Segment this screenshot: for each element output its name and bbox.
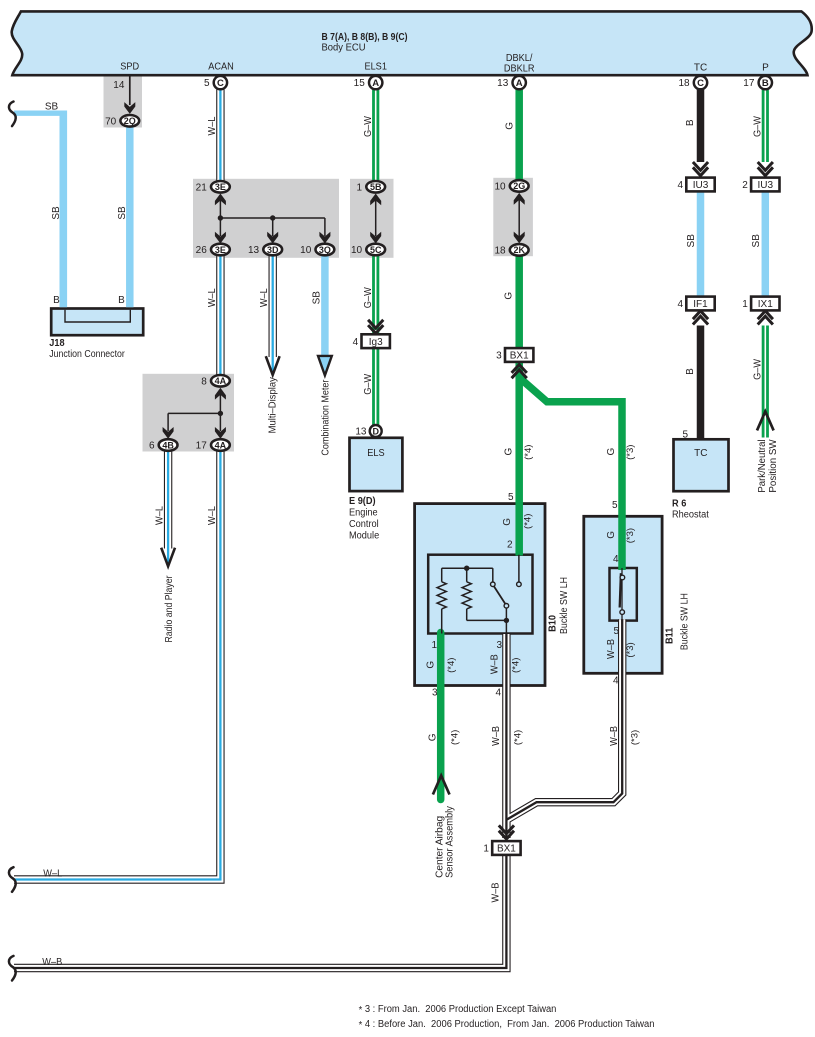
svg-text:5C: 5C: [370, 245, 382, 255]
svg-text:E 9(D): E 9(D): [349, 496, 376, 507]
svg-text:5: 5: [204, 78, 210, 89]
arrows into 26(3E),13(3D),10(3Q): [215, 232, 226, 244]
B10 Buckle SW LH box: [415, 504, 545, 686]
svg-text:13: 13: [248, 245, 260, 256]
arrow to Radio and Player: [161, 548, 175, 567]
svg-text:3Q: 3Q: [319, 245, 331, 255]
wire B IF1 to R6 TC: [697, 326, 705, 440]
double chevron into 2 IU3: [758, 167, 773, 175]
svg-text:3: 3: [496, 351, 502, 362]
wire B C to IU3: [697, 90, 705, 162]
wire SB from left break to J18: [14, 110, 65, 115]
svg-text:5: 5: [682, 429, 688, 440]
svg-text:2G: 2G: [513, 181, 525, 191]
svg-text:SB: SB: [686, 234, 697, 248]
resistor in B10 (mid): [466, 568, 468, 582]
svg-text:4: 4: [613, 675, 619, 686]
svg-text:C: C: [697, 78, 704, 89]
svg-text:3D: 3D: [267, 245, 279, 255]
connector 4A bottom: [211, 439, 230, 451]
wire G-W Ig3 to ECM D: [372, 349, 379, 425]
break symbol W-L wire: [9, 867, 16, 892]
svg-text:G–W: G–W: [363, 115, 374, 137]
wire G BX1 to B10 pin5: [515, 361, 523, 556]
connector box BX1 upper: [505, 348, 533, 362]
svg-text:BX1: BX1: [497, 844, 516, 855]
svg-text:G: G: [503, 447, 514, 455]
svg-text:21: 21: [196, 182, 208, 193]
svg-text:W–L: W–L: [259, 288, 270, 307]
connector 3D: [263, 244, 282, 256]
junction block shade 3E/3D/3Q: [193, 179, 339, 258]
svg-text:C: C: [217, 78, 224, 89]
junction block 3E/3D/3Q internal wiring: [220, 200, 325, 236]
pin circle A (ELS1): [369, 76, 382, 89]
svg-text:5: 5: [612, 500, 618, 511]
wire SB IU3 to IX1: [762, 191, 770, 296]
svg-text:3: 3: [432, 688, 438, 699]
arrow into 2Q: [124, 102, 135, 114]
arrow from Park/Neutral Position SW: [757, 412, 774, 431]
Body ECU banner: [12, 11, 812, 75]
svg-text:* 4 : Before Jan. 2006 Produc: * 4 : Before Jan. 2006 Production, From …: [359, 1019, 655, 1031]
svg-text:5: 5: [613, 626, 619, 637]
svg-text:Junction Connector: Junction Connector: [49, 349, 125, 360]
svg-text:P: P: [762, 62, 769, 73]
svg-text:B10: B10: [548, 615, 559, 632]
R6 Rheostat box: [674, 439, 729, 491]
svg-text:G–W: G–W: [363, 373, 374, 395]
svg-text:(*3): (*3): [625, 642, 636, 657]
svg-text:3E: 3E: [215, 245, 226, 255]
wire G 2K to BX1: [515, 255, 523, 349]
svg-text:(*3): (*3): [625, 528, 636, 543]
J18 junction connector box: [51, 309, 143, 336]
svg-text:W–L: W–L: [207, 116, 218, 135]
svg-text:B11: B11: [664, 627, 675, 644]
ELS / Engine Control Module box: [350, 438, 403, 491]
junction block 2G/2K internal double arrow: [518, 197, 520, 240]
wire W-B B10 pin3 to BX1: [502, 634, 510, 838]
svg-text:2: 2: [507, 539, 513, 550]
svg-text:(*4): (*4): [522, 514, 533, 529]
svg-text:4A: 4A: [215, 376, 227, 386]
svg-text:26: 26: [196, 245, 208, 256]
wire W-L 3D to Multi-Display: [269, 255, 277, 357]
arrow from Center Airbag Sensor Assembly: [433, 776, 450, 795]
junction block shade 2G/2K: [493, 178, 533, 256]
svg-text:Combination Meter: Combination Meter: [321, 379, 332, 456]
svg-text:G: G: [606, 531, 617, 539]
svg-text:10: 10: [351, 245, 363, 256]
svg-text:W–L: W–L: [43, 868, 62, 879]
junction block shade 4A/4B: [143, 374, 235, 452]
svg-text:SB: SB: [311, 291, 322, 305]
svg-text:8: 8: [201, 376, 207, 387]
wire G A to 2G: [515, 90, 523, 181]
svg-text:13: 13: [497, 78, 509, 89]
svg-text:G: G: [502, 518, 513, 526]
svg-text:2Q: 2Q: [124, 116, 136, 126]
junction block 5B/5C internal wiring: [375, 200, 377, 236]
svg-text:Module: Module: [349, 531, 380, 542]
svg-text:(*4): (*4): [523, 445, 534, 460]
B10 switch arm: [494, 586, 505, 604]
connector 3E top: [211, 181, 230, 193]
connector 3E bottom: [211, 244, 230, 256]
svg-text:W–L: W–L: [207, 506, 218, 525]
svg-text:IU3: IU3: [693, 180, 709, 191]
connector box IU3 (P): [751, 178, 779, 192]
connector 5B: [366, 181, 385, 193]
svg-text:4: 4: [613, 554, 619, 565]
svg-text:G: G: [425, 661, 436, 669]
svg-text:10: 10: [494, 182, 506, 193]
connector box IU3 (TC): [686, 178, 714, 192]
svg-text:B: B: [118, 295, 125, 306]
wire SB from 2Q to J18: [126, 127, 134, 307]
svg-text:G–W: G–W: [753, 115, 764, 137]
svg-text:15: 15: [354, 78, 366, 89]
arrow into 21(3E): [215, 194, 226, 206]
svg-text:SB: SB: [45, 102, 59, 113]
svg-text:4: 4: [353, 337, 359, 348]
svg-text:2K: 2K: [513, 245, 525, 255]
svg-text:G: G: [606, 447, 617, 455]
B11 switch arm: [620, 573, 621, 607]
arrows into 6(4B),17(4A): [163, 427, 174, 439]
svg-text:W–B: W–B: [42, 957, 62, 968]
wire W-L 4B to Radio and Player: [164, 451, 172, 549]
junction block shade 5B/5C: [350, 179, 394, 258]
svg-text:TC: TC: [694, 62, 707, 73]
svg-text:17: 17: [196, 441, 208, 452]
svg-text:G: G: [503, 292, 514, 300]
svg-text:J18: J18: [49, 338, 65, 349]
pin circle C (ACAN): [214, 76, 227, 89]
wire G-W A to 5B: [372, 90, 379, 182]
svg-text:10: 10: [300, 245, 312, 256]
svg-text:IF1: IF1: [693, 299, 708, 310]
svg-text:4B: 4B: [162, 440, 174, 450]
svg-text:B: B: [685, 368, 696, 375]
double chevron into 4 IU3: [693, 167, 708, 175]
wire G-W IX1 from Park/Neutral Position SW: [762, 326, 769, 438]
svg-text:G–W: G–W: [753, 358, 764, 380]
svg-text:Multi–Display: Multi–Display: [268, 377, 279, 433]
double chevron below 4 IF1: [693, 311, 708, 319]
svg-text:18: 18: [678, 78, 690, 89]
svg-text:IU3: IU3: [758, 180, 774, 191]
break symbol W-B wire: [9, 956, 16, 981]
svg-text:14: 14: [113, 80, 125, 91]
wire W-L C to 3E: [216, 90, 224, 182]
svg-text:Position SW: Position SW: [768, 439, 779, 493]
svg-text:D: D: [372, 426, 379, 436]
svg-text:ACAN: ACAN: [208, 62, 234, 73]
junction block shade SPD: [104, 76, 143, 128]
svg-text:Ig3: Ig3: [369, 337, 383, 348]
wire G branch to B11 pin5: [519, 378, 622, 571]
svg-text:W–B: W–B: [490, 882, 501, 902]
svg-text:2: 2: [742, 180, 748, 191]
svg-text:(*4): (*4): [511, 658, 522, 673]
svg-text:4: 4: [677, 299, 683, 310]
svg-text:A: A: [516, 78, 523, 89]
svg-text:DBKL/: DBKL/: [506, 53, 533, 64]
B10 switch circuit: [518, 555, 520, 582]
arrow to Multi-Display: [266, 356, 280, 375]
svg-text:Radio and Player: Radio and Player: [164, 575, 175, 643]
svg-text:1: 1: [357, 182, 363, 193]
connector box BX1 lower: [492, 841, 520, 855]
wire SPD pin14 lead: [129, 75, 131, 106]
connector 4B: [159, 439, 178, 451]
svg-text:G–W: G–W: [363, 287, 374, 309]
wire SB 3Q to Combination Meter: [321, 255, 329, 356]
svg-text:18: 18: [494, 246, 506, 257]
svg-text:W–L: W–L: [154, 506, 165, 525]
svg-text:IX1: IX1: [758, 299, 773, 310]
connector 2K: [510, 244, 529, 256]
wire W-L 17(4A) long run to left break: [14, 451, 220, 880]
svg-text:G: G: [504, 122, 515, 130]
svg-text:3: 3: [496, 640, 502, 651]
svg-text:ELS: ELS: [367, 448, 385, 459]
arrow into 8(4A): [215, 388, 226, 400]
break symbol SB wire: [9, 102, 16, 127]
svg-text:4: 4: [495, 688, 501, 699]
svg-text:6: 6: [149, 441, 155, 452]
connector 5C: [366, 244, 385, 256]
svg-text:SPD: SPD: [120, 62, 139, 73]
B10 inner switch box: [428, 555, 532, 634]
svg-text:TC: TC: [694, 448, 707, 459]
pin circle D (ECM): [370, 425, 382, 437]
svg-text:B: B: [685, 119, 696, 126]
wire G-W B to IU3: [762, 90, 769, 162]
connector 3Q: [316, 244, 335, 256]
B11 Buckle SW LH box: [584, 516, 662, 673]
svg-text:1: 1: [742, 299, 748, 310]
svg-text:BX1: BX1: [510, 351, 529, 362]
svg-text:Sensor Assembly: Sensor Assembly: [445, 806, 456, 878]
svg-text:W–B: W–B: [491, 726, 502, 746]
wire G B10 pin1 to Center Airbag: [437, 633, 445, 800]
svg-text:4: 4: [677, 180, 683, 191]
connector box Ig3: [362, 334, 390, 348]
svg-text:DBKLR: DBKLR: [504, 64, 535, 75]
double chevron into 1 BX1: [499, 831, 514, 839]
svg-text:W–L: W–L: [207, 288, 218, 307]
svg-text:Buckle SW LH: Buckle SW LH: [679, 593, 690, 650]
svg-text:B: B: [53, 295, 60, 306]
svg-text:Body ECU: Body ECU: [322, 43, 366, 54]
connector box IF1: [686, 297, 714, 311]
svg-text:Control: Control: [349, 519, 379, 530]
svg-text:W–B: W–B: [606, 639, 617, 659]
svg-text:1: 1: [483, 844, 489, 855]
svg-text:B 7(A), B 8(B), B 9(C): B 7(A), B 8(B), B 9(C): [322, 31, 408, 43]
svg-text:Engine: Engine: [349, 508, 378, 519]
arrow into 10(5C): [370, 232, 381, 244]
svg-text:5B: 5B: [370, 182, 382, 192]
pin circle A (DBKL): [513, 76, 526, 89]
svg-text:(*3): (*3): [625, 445, 636, 460]
double chevron below 1 IX1: [758, 311, 773, 319]
svg-text:B: B: [762, 78, 769, 89]
svg-text:(*4): (*4): [513, 730, 524, 745]
svg-text:(*4): (*4): [450, 730, 461, 745]
svg-text:70: 70: [105, 117, 117, 128]
junction block 4A/4B internal wiring: [168, 392, 220, 431]
svg-text:SB: SB: [117, 206, 128, 220]
svg-text:A: A: [372, 78, 379, 89]
pin circle C (TC): [694, 76, 707, 89]
svg-text:SB: SB: [51, 206, 62, 220]
pin circle B (P): [759, 76, 772, 89]
svg-text:* 3 : From Jan. 2006 Producti: * 3 : From Jan. 2006 Production Except T…: [359, 1004, 557, 1016]
svg-text:Rheostat: Rheostat: [672, 510, 709, 521]
svg-text:Buckle SW LH: Buckle SW LH: [559, 577, 570, 634]
svg-text:4A: 4A: [215, 440, 227, 450]
wire G-W 5C to Ig3: [372, 255, 379, 333]
svg-text:Park/Neutral: Park/Neutral: [757, 439, 768, 492]
connector 2Q: [120, 115, 139, 127]
arrow to Combination Meter: [318, 356, 332, 376]
svg-text:(*4): (*4): [446, 658, 457, 673]
B11 inner switch box: [610, 568, 637, 621]
double chevron into Ig3: [368, 325, 383, 333]
svg-text:G: G: [427, 733, 438, 741]
arrow into 1(5B): [370, 194, 381, 206]
svg-text:W–B: W–B: [489, 654, 500, 674]
svg-text:17: 17: [743, 78, 755, 89]
svg-text:R 6: R 6: [672, 498, 687, 509]
svg-text:SB: SB: [751, 234, 762, 248]
wire SB IU3 to IF1: [697, 191, 705, 296]
svg-text:(*3): (*3): [630, 730, 641, 745]
svg-text:ELS1: ELS1: [364, 62, 387, 73]
connector 2G: [510, 180, 529, 192]
svg-text:1: 1: [431, 640, 437, 651]
wire W-L 3E to 4A: [216, 255, 224, 376]
double chevron below 3 BX1: [512, 365, 527, 373]
svg-text:3E: 3E: [215, 182, 226, 192]
svg-text:13: 13: [355, 427, 367, 438]
svg-text:5: 5: [508, 492, 514, 503]
B11 switch circuit: [621, 568, 623, 621]
connector 4A top: [211, 375, 230, 387]
connector box IX1: [751, 297, 779, 311]
resistor in B10 (left): [441, 568, 443, 582]
svg-text:W–B: W–B: [609, 726, 620, 746]
